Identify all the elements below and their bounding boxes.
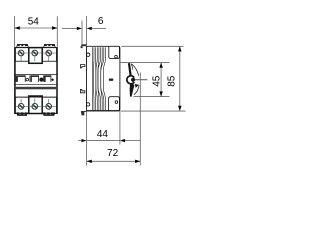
svg-text:54: 54 <box>28 16 40 27</box>
svg-text:85: 85 <box>167 75 178 87</box>
svg-text:6: 6 <box>98 16 104 27</box>
svg-text:44: 44 <box>97 129 109 140</box>
svg-text:45: 45 <box>152 75 163 87</box>
svg-text:72: 72 <box>107 148 119 159</box>
